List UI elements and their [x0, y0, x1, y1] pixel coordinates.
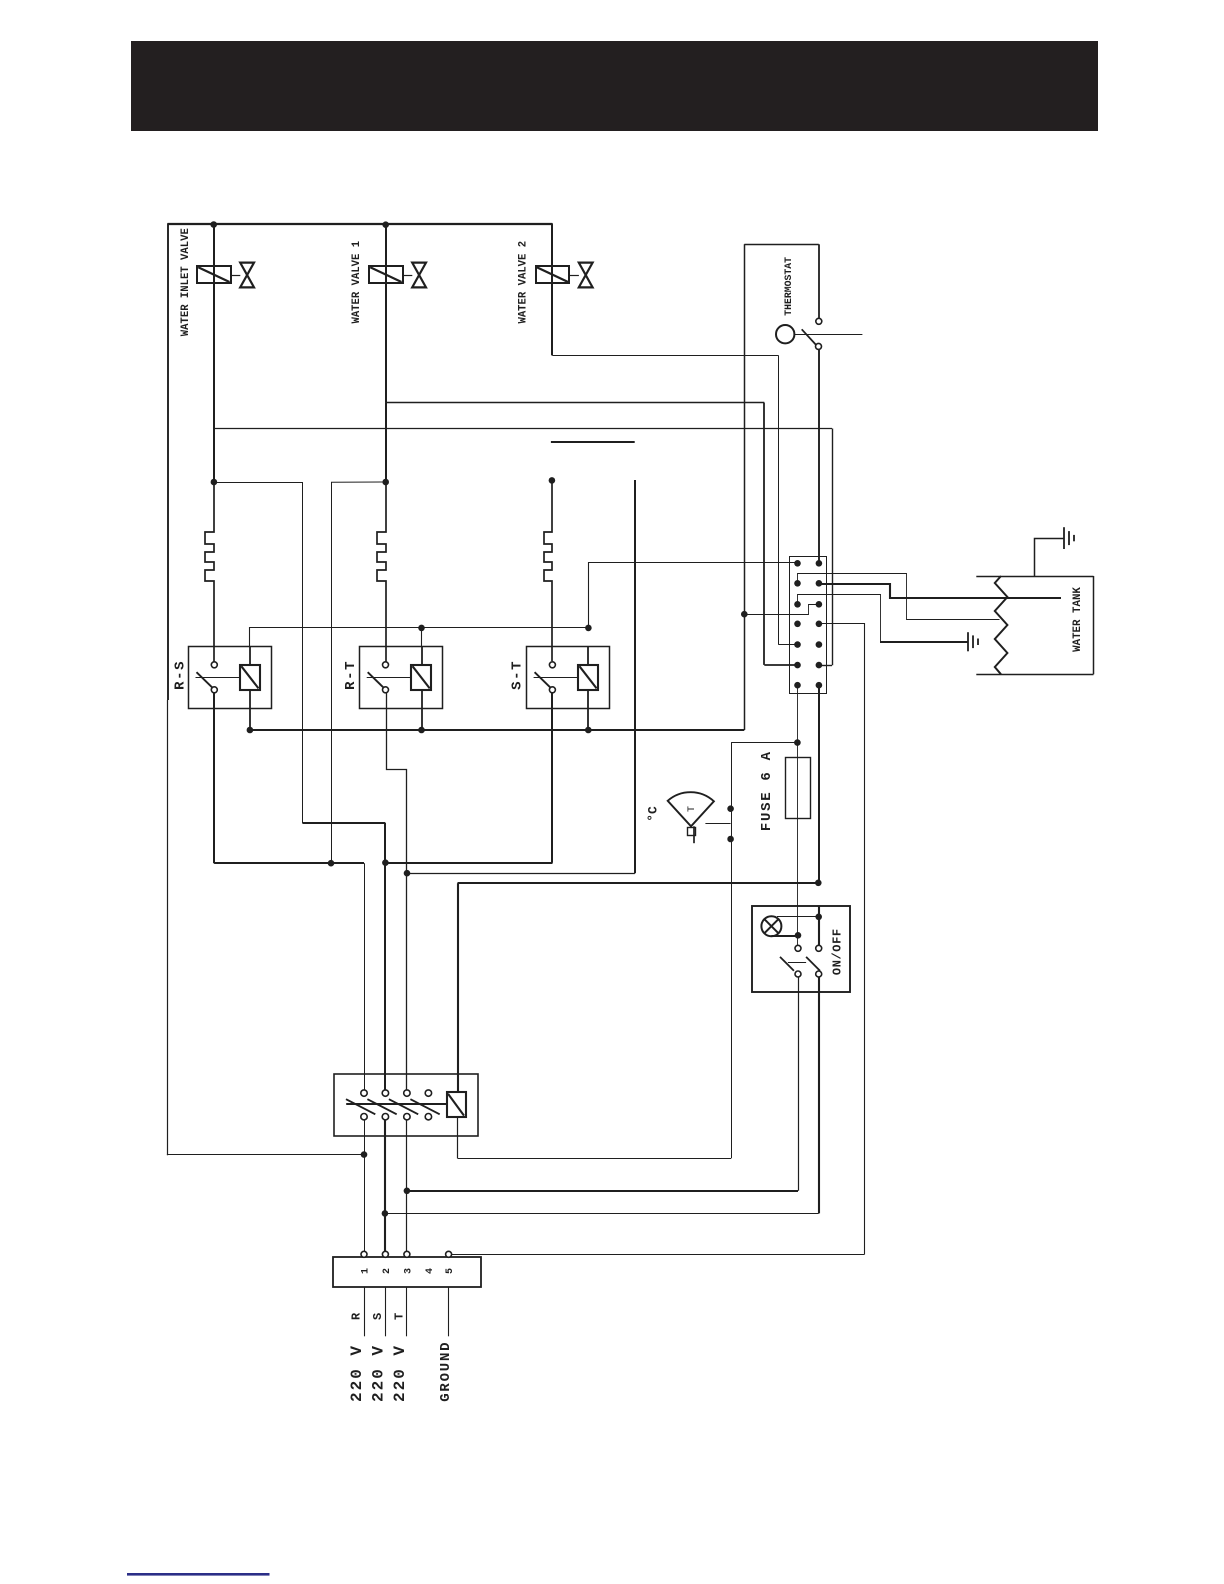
svg-text:220 V: 220 V	[391, 1344, 409, 1402]
svg-text:°C: °C	[645, 806, 660, 822]
svg-text:T: T	[687, 806, 698, 812]
svg-text:S-T: S-T	[510, 660, 526, 690]
svg-text:T: T	[392, 1313, 406, 1320]
svg-text:GROUND: GROUND	[438, 1341, 454, 1402]
svg-text:WATER VALVE 1: WATER VALVE 1	[351, 241, 363, 324]
svg-text:THERMOSTAT: THERMOSTAT	[783, 257, 794, 316]
svg-text:S: S	[371, 1313, 385, 1320]
svg-text:FUSE 6 A: FUSE 6 A	[759, 750, 775, 831]
svg-text:3: 3	[404, 1268, 415, 1274]
svg-text:1: 1	[361, 1268, 372, 1274]
svg-text:ON/OFF: ON/OFF	[831, 928, 845, 975]
svg-text:220 V: 220 V	[369, 1344, 387, 1402]
svg-text:R: R	[350, 1312, 364, 1320]
svg-text:WATER VALVE 2: WATER VALVE 2	[518, 241, 530, 324]
svg-text:2: 2	[382, 1268, 393, 1274]
svg-text:WATER INLET VALVE: WATER INLET VALVE	[180, 228, 192, 336]
svg-text:4: 4	[425, 1268, 436, 1274]
svg-text:WATER TANK: WATER TANK	[1072, 587, 1084, 652]
svg-text:220 V: 220 V	[348, 1344, 366, 1402]
svg-text:R-S: R-S	[172, 660, 188, 690]
svg-text:5: 5	[445, 1268, 456, 1274]
svg-text:R-T: R-T	[343, 660, 359, 690]
